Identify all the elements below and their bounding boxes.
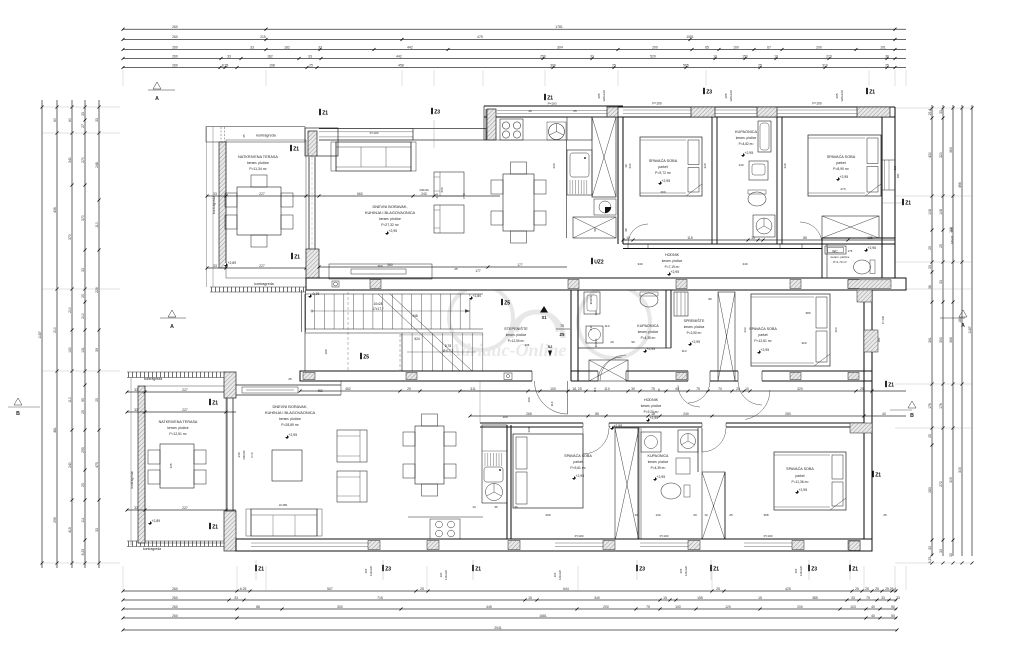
svg-text:P=27,32 m²: P=27,32 m² xyxy=(381,223,399,227)
svg-text:40: 40 xyxy=(871,605,875,609)
svg-text:10: 10 xyxy=(774,54,778,58)
svg-text:361: 361 xyxy=(928,337,932,343)
svg-text:131: 131 xyxy=(81,347,85,353)
svg-text:25: 25 xyxy=(81,483,85,487)
svg-text:110: 110 xyxy=(682,349,687,353)
svg-text:36: 36 xyxy=(494,505,498,509)
svg-text:283: 283 xyxy=(928,487,932,493)
svg-text:366: 366 xyxy=(949,337,953,343)
svg-text:40: 40 xyxy=(882,412,886,416)
svg-text:30: 30 xyxy=(624,164,628,168)
svg-text:kontragreda: kontragreda xyxy=(143,547,161,551)
svg-text:keram. pločice: keram. pločice xyxy=(379,217,401,221)
svg-text:110: 110 xyxy=(95,222,99,228)
svg-text:Ø±17,2: Ø±17,2 xyxy=(443,349,454,353)
svg-text:1781: 1781 xyxy=(555,25,563,29)
svg-text:481: 481 xyxy=(53,427,57,433)
svg-text:STEPENIŠTE: STEPENIŠTE xyxy=(504,326,528,331)
svg-text:8,25: 8,25 xyxy=(222,63,229,67)
svg-text:120x20: 120x20 xyxy=(950,235,954,244)
svg-text:20: 20 xyxy=(610,340,614,344)
svg-text:360: 360 xyxy=(387,263,393,267)
svg-text:100: 100 xyxy=(733,45,739,49)
svg-text:+2,95: +2,95 xyxy=(289,433,298,437)
svg-text:25: 25 xyxy=(928,246,932,250)
svg-text:340: 340 xyxy=(68,157,72,163)
svg-text:436: 436 xyxy=(53,207,57,213)
svg-text:182: 182 xyxy=(284,45,290,49)
svg-text:320: 320 xyxy=(801,341,806,345)
svg-text:85: 85 xyxy=(595,412,599,416)
svg-text:KUPAONICA: KUPAONICA xyxy=(637,324,659,328)
svg-text:120: 120 xyxy=(725,605,731,609)
svg-text:177: 177 xyxy=(517,263,523,267)
svg-text:P=100: P=100 xyxy=(575,534,584,538)
svg-text:240: 240 xyxy=(683,412,689,416)
svg-text:15: 15 xyxy=(758,596,762,600)
svg-text:25: 25 xyxy=(309,63,313,67)
svg-text:+2,95: +2,95 xyxy=(745,151,754,155)
svg-text:80: 80 xyxy=(708,297,712,301)
svg-text:36: 36 xyxy=(885,54,889,58)
svg-text:88: 88 xyxy=(256,605,260,609)
svg-text:25: 25 xyxy=(407,387,411,391)
svg-text:33: 33 xyxy=(318,45,322,49)
svg-text:10: 10 xyxy=(626,236,630,240)
svg-text:524: 524 xyxy=(414,337,420,341)
svg-text:353: 353 xyxy=(939,337,943,343)
svg-text:130: 130 xyxy=(655,513,660,517)
svg-text:33: 33 xyxy=(308,54,312,58)
svg-text:P=12,51 m²: P=12,51 m² xyxy=(169,432,187,436)
svg-text:435: 435 xyxy=(169,463,173,468)
svg-text:200: 200 xyxy=(603,605,609,609)
svg-text:SPAVAĆA SOBA: SPAVAĆA SOBA xyxy=(827,154,856,159)
svg-text:385: 385 xyxy=(812,596,818,600)
svg-text:442: 442 xyxy=(396,54,402,58)
svg-text:S2: S2 xyxy=(548,345,553,349)
svg-text:Z1: Z1 xyxy=(905,201,911,207)
svg-text:25 A: 25 A xyxy=(890,587,898,591)
svg-text:P=0: P=0 xyxy=(250,452,254,457)
svg-text:+2,95: +2,95 xyxy=(840,175,849,179)
svg-text:40: 40 xyxy=(871,614,875,618)
svg-text:25: 25 xyxy=(716,587,720,591)
svg-text:475: 475 xyxy=(95,462,99,468)
svg-text:250: 250 xyxy=(540,54,546,58)
svg-text:150: 150 xyxy=(742,54,748,58)
svg-text:17±17,7: 17±17,7 xyxy=(372,307,384,311)
svg-text:P=9,61 m²: P=9,61 m² xyxy=(570,466,586,470)
svg-text:-0,15: -0,15 xyxy=(312,292,320,296)
svg-text:180: 180 xyxy=(893,165,897,170)
svg-text:227: 227 xyxy=(182,506,188,510)
svg-text:200: 200 xyxy=(797,605,803,609)
svg-text:Adriatic-Online: Adriatic-Online xyxy=(448,340,566,360)
svg-text:P=0: P=0 xyxy=(462,193,466,198)
svg-text:P=4,35 m²: P=4,35 m² xyxy=(641,336,656,340)
svg-text:P=100: P=100 xyxy=(812,102,822,106)
svg-text:33: 33 xyxy=(134,408,138,412)
svg-text:95: 95 xyxy=(81,398,85,402)
svg-text:36: 36 xyxy=(928,285,932,289)
svg-text:280: 280 xyxy=(785,412,791,416)
svg-text:260: 260 xyxy=(552,163,556,168)
svg-text:+2,95: +2,95 xyxy=(614,424,623,428)
svg-text:176: 176 xyxy=(939,403,943,409)
svg-text:230x30: 230x30 xyxy=(419,188,429,192)
svg-text:8,78: 8,78 xyxy=(445,344,451,348)
svg-text:160: 160 xyxy=(553,572,557,577)
svg-text:HODNIK: HODNIK xyxy=(665,253,680,257)
svg-text:458: 458 xyxy=(398,63,404,67)
svg-text:520: 520 xyxy=(650,54,656,58)
svg-text:25: 25 xyxy=(758,63,762,67)
svg-text:360: 360 xyxy=(377,264,382,268)
svg-text:Z3: Z3 xyxy=(434,110,440,116)
svg-text:HODNIK: HODNIK xyxy=(644,398,659,402)
svg-text:75: 75 xyxy=(560,324,564,328)
svg-text:Z1: Z1 xyxy=(322,111,328,117)
svg-text:KUHINJA I BLAGOVAONICA: KUHINJA I BLAGOVAONICA xyxy=(265,410,316,415)
svg-text:KUPAONICA: KUPAONICA xyxy=(648,454,670,458)
svg-text:227: 227 xyxy=(182,408,188,412)
svg-text:keram. pločica: keram. pločica xyxy=(684,325,705,329)
svg-text:415: 415 xyxy=(68,527,72,533)
svg-text:33: 33 xyxy=(95,118,99,122)
svg-text:P=4,82 m²: P=4,82 m² xyxy=(739,142,754,146)
svg-text:+2,95: +2,95 xyxy=(799,488,808,492)
svg-text:100: 100 xyxy=(502,415,507,419)
svg-text:KUPAONICA: KUPAONICA xyxy=(735,130,758,134)
svg-text:10: 10 xyxy=(704,513,708,517)
svg-text:Z1: Z1 xyxy=(293,147,299,153)
svg-text:30: 30 xyxy=(631,387,635,391)
svg-text:18, 25: 18, 25 xyxy=(572,387,582,391)
svg-text:120x120: 120x120 xyxy=(444,569,448,580)
svg-text:120x120: 120x120 xyxy=(684,565,688,576)
svg-text:10: 10 xyxy=(713,54,717,58)
svg-text:20: 20 xyxy=(736,387,740,391)
svg-text:+2,95: +2,95 xyxy=(761,348,770,352)
svg-text:644: 644 xyxy=(563,587,569,591)
svg-text:715: 715 xyxy=(377,596,383,600)
svg-text:33: 33 xyxy=(134,388,138,392)
svg-text:25: 25 xyxy=(729,513,733,517)
svg-text:A: A xyxy=(170,324,174,330)
svg-text:A 25: A 25 xyxy=(240,587,247,591)
svg-text:270: 270 xyxy=(81,157,85,163)
svg-text:340: 340 xyxy=(637,262,642,266)
svg-text:kontragreda: kontragreda xyxy=(256,134,275,138)
svg-text:311: 311 xyxy=(470,387,476,391)
svg-text:Z1: Z1 xyxy=(547,96,553,102)
svg-text:Z3: Z3 xyxy=(639,567,645,573)
svg-text:182: 182 xyxy=(267,54,273,58)
svg-text:227: 227 xyxy=(259,264,265,268)
svg-text:P=1,70 m²: P=1,70 m² xyxy=(833,260,846,264)
svg-text:108: 108 xyxy=(939,209,943,215)
svg-text:Z5: Z5 xyxy=(504,301,510,307)
svg-text:keram. pločice: keram. pločice xyxy=(662,259,683,263)
svg-text:P=8,90 m²: P=8,90 m² xyxy=(833,167,850,171)
svg-text:205: 205 xyxy=(597,93,601,98)
svg-text:269: 269 xyxy=(545,513,550,517)
svg-text:Z1: Z1 xyxy=(713,567,719,573)
svg-text:260: 260 xyxy=(172,25,178,29)
svg-text:10: 10 xyxy=(745,387,749,391)
svg-text:+2,95: +2,95 xyxy=(671,270,680,274)
svg-text:A: A xyxy=(961,323,965,329)
svg-text:110: 110 xyxy=(68,397,72,403)
svg-text:+2,96: +2,96 xyxy=(868,246,877,250)
svg-text:1681: 1681 xyxy=(539,614,547,618)
svg-text:240: 240 xyxy=(68,462,72,468)
svg-text:260: 260 xyxy=(527,427,531,432)
svg-text:120x120: 120x120 xyxy=(369,565,373,576)
svg-text:+2,80: +2,80 xyxy=(473,294,482,298)
svg-text:+2,95: +2,95 xyxy=(650,416,659,420)
svg-text:P=100: P=100 xyxy=(370,131,379,135)
svg-text:Z1: Z1 xyxy=(258,567,264,573)
svg-text:270: 270 xyxy=(840,187,845,191)
svg-text:110: 110 xyxy=(605,324,610,328)
svg-text:370: 370 xyxy=(81,215,85,221)
svg-text:100: 100 xyxy=(527,397,531,402)
svg-text:35: 35 xyxy=(242,134,246,138)
svg-text:25: 25 xyxy=(612,63,616,67)
svg-text:20: 20 xyxy=(693,513,697,517)
svg-text:keram. pločice: keram. pločice xyxy=(641,404,662,408)
svg-text:305: 305 xyxy=(958,467,962,473)
svg-text:215: 215 xyxy=(260,35,266,39)
svg-text:Z1: Z1 xyxy=(852,567,858,573)
svg-text:WC: WC xyxy=(832,249,838,253)
svg-text:P=12,50 m²: P=12,50 m² xyxy=(508,339,525,343)
svg-text:75: 75 xyxy=(646,605,650,609)
svg-text:SPREMIŠTE: SPREMIŠTE xyxy=(684,318,705,323)
svg-text:130: 130 xyxy=(738,163,743,167)
svg-text:33: 33 xyxy=(213,264,217,268)
svg-text:25: 25 xyxy=(939,244,943,248)
svg-text:272: 272 xyxy=(939,481,943,487)
svg-text:155: 155 xyxy=(697,596,703,600)
svg-text:210: 210 xyxy=(81,313,85,319)
svg-text:305: 305 xyxy=(949,477,953,483)
svg-text:keram. pločice: keram. pločice xyxy=(831,255,850,259)
svg-text:75: 75 xyxy=(866,596,870,600)
svg-text:110: 110 xyxy=(604,387,610,391)
svg-text:keram. pločice: keram. pločice xyxy=(247,161,269,165)
svg-text:445: 445 xyxy=(486,605,492,609)
svg-text:25: 25 xyxy=(420,587,424,591)
svg-text:260: 260 xyxy=(172,45,178,49)
svg-text:33: 33 xyxy=(939,549,943,553)
svg-text:60: 60 xyxy=(68,118,72,122)
svg-text:110: 110 xyxy=(550,401,554,406)
svg-text:240: 240 xyxy=(742,262,747,266)
svg-text:keram. pločice: keram. pločice xyxy=(279,417,301,421)
svg-text:1187: 1187 xyxy=(38,331,42,338)
svg-text:33: 33 xyxy=(949,553,953,557)
svg-text:B: B xyxy=(16,411,20,417)
svg-text:115: 115 xyxy=(687,236,693,240)
svg-text:keram. pločice: keram. pločice xyxy=(506,333,527,337)
svg-text:33: 33 xyxy=(590,54,594,58)
svg-text:67: 67 xyxy=(767,45,771,49)
svg-text:295: 295 xyxy=(81,447,85,453)
svg-text:25: 25 xyxy=(573,109,577,113)
svg-text:240: 240 xyxy=(421,192,427,196)
svg-text:DNEVNI BORAVAK,: DNEVNI BORAVAK, xyxy=(372,204,407,209)
svg-text:1081: 1081 xyxy=(686,35,694,39)
svg-text:UZ2: UZ2 xyxy=(594,260,604,266)
svg-text:50: 50 xyxy=(891,605,895,609)
svg-text:33: 33 xyxy=(939,280,943,284)
svg-text:keram. pločice: keram. pločice xyxy=(167,426,188,430)
svg-text:25: 25 xyxy=(865,587,869,591)
svg-text:205: 205 xyxy=(724,93,728,98)
svg-text:33: 33 xyxy=(95,528,99,532)
svg-text:205: 205 xyxy=(835,93,839,98)
svg-text:P=12,81 m²: P=12,81 m² xyxy=(754,339,772,343)
svg-text:448: 448 xyxy=(412,314,418,318)
svg-text:90/210: 90/210 xyxy=(589,295,593,304)
svg-text:+2,95: +2,95 xyxy=(692,340,701,344)
svg-text:75: 75 xyxy=(651,387,655,391)
svg-text:kontragreda: kontragreda xyxy=(130,471,134,488)
svg-text:265: 265 xyxy=(526,412,532,416)
svg-text:260: 260 xyxy=(172,63,178,67)
svg-text:200: 200 xyxy=(652,45,658,49)
svg-text:+2,95: +2,95 xyxy=(657,475,666,479)
svg-text:P=100: P=100 xyxy=(548,102,557,106)
svg-text:33: 33 xyxy=(213,192,217,196)
svg-text:+2,95: +2,95 xyxy=(662,179,671,183)
svg-text:240: 240 xyxy=(237,452,241,457)
svg-text:206: 206 xyxy=(525,343,530,347)
svg-text:100: 100 xyxy=(324,349,328,354)
svg-text:P=4,39 m²: P=4,39 m² xyxy=(651,466,666,470)
svg-text:25: 25 xyxy=(81,410,85,414)
svg-text:33: 33 xyxy=(928,265,932,269)
svg-text:33: 33 xyxy=(939,110,943,114)
svg-text:parket: parket xyxy=(658,165,667,169)
svg-text:273: 273 xyxy=(826,54,832,58)
svg-text:176: 176 xyxy=(928,403,932,409)
svg-text:39: 39 xyxy=(95,348,99,352)
svg-text:+2,89: +2,89 xyxy=(228,261,237,265)
svg-text:240: 240 xyxy=(435,193,439,198)
svg-text:SPAVAĆA SOBA: SPAVAĆA SOBA xyxy=(786,466,814,471)
svg-text:Z3: Z3 xyxy=(706,90,712,96)
svg-text:27: 27 xyxy=(81,124,85,128)
svg-text:442: 442 xyxy=(407,45,413,49)
svg-text:320: 320 xyxy=(703,163,707,168)
svg-text:Z5: Z5 xyxy=(560,332,566,337)
svg-text:260: 260 xyxy=(660,190,665,194)
svg-text:380: 380 xyxy=(805,311,810,315)
svg-text:Z1: Z1 xyxy=(475,567,481,573)
svg-text:210: 210 xyxy=(68,307,72,313)
svg-text:110: 110 xyxy=(593,387,597,392)
svg-text:260: 260 xyxy=(172,605,178,609)
svg-text:363: 363 xyxy=(949,147,953,153)
svg-text:205: 205 xyxy=(679,568,683,573)
svg-text:+2,95: +2,95 xyxy=(576,474,585,478)
svg-text:8,25: 8,25 xyxy=(928,557,932,564)
svg-text:Z1: Z1 xyxy=(294,255,300,261)
svg-text:25 A: 25 A xyxy=(928,108,932,116)
svg-text:33: 33 xyxy=(81,268,85,272)
svg-text:304: 304 xyxy=(557,45,563,49)
svg-text:P=28,89 m²: P=28,89 m² xyxy=(281,423,299,427)
svg-text:430: 430 xyxy=(928,152,932,158)
svg-text:NATKRIVENA TERASA: NATKRIVENA TERASA xyxy=(159,420,198,424)
svg-text:P=2,50 m²: P=2,50 m² xyxy=(687,331,702,335)
svg-text:200: 200 xyxy=(816,45,822,49)
svg-text:75: 75 xyxy=(696,387,700,391)
svg-text:10x28: 10x28 xyxy=(374,302,383,306)
svg-text:B: B xyxy=(910,413,914,419)
svg-text:205: 205 xyxy=(794,568,798,573)
svg-text:25: 25 xyxy=(928,434,932,438)
svg-text:parket: parket xyxy=(573,460,582,464)
svg-text:368: 368 xyxy=(763,513,768,517)
svg-text:300: 300 xyxy=(337,605,343,609)
svg-text:70: 70 xyxy=(718,387,722,391)
svg-text:keram. pločice: keram. pločice xyxy=(736,136,757,140)
svg-text:P=9,72 m²: P=9,72 m² xyxy=(655,171,672,175)
svg-text:425: 425 xyxy=(785,587,791,591)
svg-text:25: 25 xyxy=(95,398,99,402)
svg-text:33: 33 xyxy=(234,596,238,600)
svg-text:198: 198 xyxy=(269,63,275,67)
svg-text:66: 66 xyxy=(593,228,597,232)
svg-text:+2,95: +2,95 xyxy=(389,229,398,233)
svg-text:33: 33 xyxy=(851,596,855,600)
svg-text:210: 210 xyxy=(53,327,57,333)
svg-text:120x120: 120x120 xyxy=(729,90,733,102)
svg-text:25: 25 xyxy=(860,387,864,391)
svg-text:177: 177 xyxy=(475,269,481,273)
svg-text:parket: parket xyxy=(795,474,804,478)
svg-text:25: 25 xyxy=(885,63,889,67)
svg-text:parket: parket xyxy=(758,333,767,337)
svg-text:60: 60 xyxy=(53,118,57,122)
svg-text:260: 260 xyxy=(172,54,178,58)
svg-text:Z5: Z5 xyxy=(363,355,369,361)
svg-text:KUHINJA I BLAGOVAONICA: KUHINJA I BLAGOVAONICA xyxy=(365,210,416,215)
svg-text:234: 234 xyxy=(628,163,632,168)
svg-text:205: 205 xyxy=(364,568,368,573)
svg-text:NATKRIVENA TERASA: NATKRIVENA TERASA xyxy=(238,155,278,159)
svg-text:370: 370 xyxy=(68,234,72,240)
svg-text:180: 180 xyxy=(877,337,881,342)
svg-text:40: 40 xyxy=(528,109,532,113)
svg-text:120x120: 120x120 xyxy=(558,569,562,580)
svg-text:300: 300 xyxy=(550,63,556,67)
svg-text:2041: 2041 xyxy=(494,626,502,630)
svg-text:33: 33 xyxy=(928,546,932,550)
svg-text:25: 25 xyxy=(454,267,458,271)
svg-text:226: 226 xyxy=(95,287,99,293)
svg-text:8,25: 8,25 xyxy=(81,549,85,556)
svg-text:Z3: Z3 xyxy=(811,567,817,573)
svg-text:100: 100 xyxy=(550,387,556,391)
svg-text:227: 227 xyxy=(259,192,265,196)
svg-text:SPAVAĆA SOBA: SPAVAĆA SOBA xyxy=(749,326,777,331)
